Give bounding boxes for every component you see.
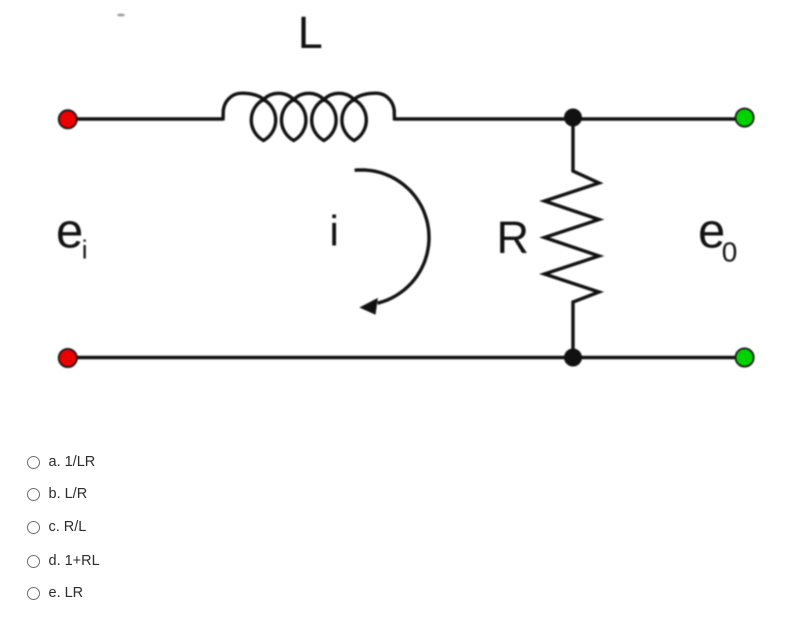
svg-text:e: e [56, 205, 83, 259]
svg-text:R: R [497, 212, 530, 263]
svg-text:0: 0 [722, 237, 738, 268]
svg-text:i: i [329, 208, 339, 256]
svg-text:i: i [82, 235, 88, 265]
svg-text:L: L [298, 7, 323, 58]
